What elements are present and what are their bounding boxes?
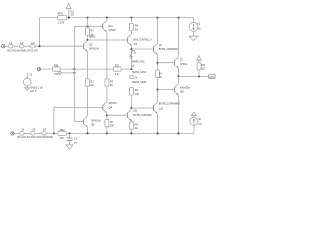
svg-text:BIAS2_MAIN: BIAS2_MAIN: [132, 80, 146, 84]
svg-text:C2: C2: [74, 137, 78, 141]
svg-text:10k: 10k: [54, 72, 59, 76]
svg-text:RB: RB: [54, 64, 59, 68]
svg-text:RS: RS: [58, 11, 64, 15]
svg-text:V2: V2: [29, 72, 32, 76]
svg-text:L1: L1: [9, 41, 13, 45]
svg-text:50: 50: [202, 67, 206, 71]
svg-text:1m: 1m: [198, 122, 202, 126]
svg-text:RB2: RB2: [60, 128, 65, 132]
svg-text:BIAS2_CASC: BIAS2_CASC: [132, 70, 146, 74]
svg-text:500: 500: [110, 124, 114, 128]
svg-text:Q8: Q8: [180, 90, 184, 94]
svg-text:1n: 1n: [74, 141, 78, 145]
svg-text:Q3: Q3: [134, 42, 138, 46]
svg-text:Q11: Q11: [159, 107, 163, 111]
svg-text:2.87k: 2.87k: [58, 21, 65, 25]
svg-text:NPN10x: NPN10x: [180, 62, 188, 66]
svg-text:10k: 10k: [60, 136, 65, 140]
svg-text:10k: 10k: [135, 92, 140, 96]
svg-text:15: 15: [70, 13, 74, 17]
svg-text:C6: C6: [43, 128, 47, 132]
svg-text:BOTM_CONTROL: BOTM_CONTROL: [133, 113, 152, 117]
svg-text:1m: 1m: [197, 26, 201, 30]
svg-text:BOTM_CURRMIRR: BOTM_CURRMIRR: [159, 102, 180, 106]
svg-text:BOTM_CONSERVA: BOTM_CONSERVA: [159, 47, 178, 51]
svg-text:AC 1: AC 1: [30, 89, 37, 93]
svg-text:I2: I2: [198, 117, 201, 121]
svg-text:NPN10x: NPN10x: [109, 28, 117, 32]
svg-text:MIC-GROUND-SIMULATION-NETWORK: MIC-GROUND-SIMULATION-NETWORK: [18, 135, 54, 139]
svg-text:Q6: Q6: [91, 123, 95, 127]
svg-text:NBIAS: NBIAS: [89, 34, 95, 38]
svg-text:NMIRR_CASC: NMIRR_CASC: [132, 60, 144, 64]
svg-text:BIAS_CONTROL_A: BIAS_CONTROL_A: [134, 37, 152, 41]
svg-text:RC: RC: [115, 64, 120, 68]
svg-text:OUT: OUT: [210, 76, 215, 79]
svg-text:Q7: Q7: [180, 58, 183, 62]
svg-text:SINE(0 1 1k): SINE(0 1 1k): [30, 86, 43, 90]
svg-text:NPN10x: NPN10x: [89, 47, 99, 51]
svg-text:I1: I1: [197, 21, 200, 25]
svg-text:L3: L3: [31, 41, 35, 45]
svg-text:C5: C5: [32, 128, 36, 132]
svg-text:MIC-GROUND-SIMULATION-NET: MIC-GROUND-SIMULATION-NET: [7, 49, 38, 53]
svg-text:L2: L2: [20, 41, 24, 45]
svg-text:Q9: Q9: [133, 109, 137, 113]
svg-text:+: +: [26, 75, 28, 79]
svg-text:C4: C4: [21, 128, 25, 132]
svg-text:Q4: Q4: [108, 105, 112, 109]
